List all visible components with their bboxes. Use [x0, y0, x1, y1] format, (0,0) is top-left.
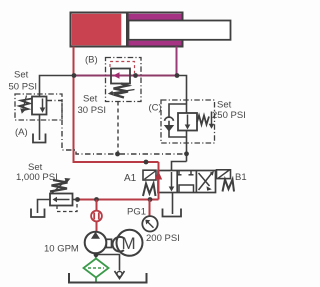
junction node red rail top [144, 160, 149, 165]
spring A1 side [143, 184, 156, 197]
cylinder rod-side fluid bottom (magenta) [129, 41, 182, 46]
junction node pump inlet [94, 252, 99, 257]
cylinder C1 barrel [71, 13, 183, 47]
wire: valve C outlet [186, 131, 188, 162]
wire: valve A inlet [40, 76, 74, 97]
wire: gauge drop (red) [149, 200, 151, 217]
tank T4 (main) [69, 273, 147, 283]
valve B drain (dashed) [117, 102, 119, 155]
junction node drain rail / C line [184, 151, 189, 156]
wire: drain branch [96, 255, 120, 271]
tank T3 (relief) [31, 209, 45, 218]
svg-text:Set: Set [217, 100, 232, 111]
wire: filter to tank (green) [95, 278, 97, 282]
relief valve R1 body [50, 194, 73, 206]
wire: head rail (magenta) [74, 75, 178, 77]
svg-text:250 PSI: 250 PSI [212, 110, 246, 121]
valve C adjustment arrow [211, 112, 213, 125]
electric motor M1 [117, 230, 143, 256]
quick disconnect QD1 [91, 211, 102, 222]
junction node relief [75, 197, 80, 202]
box2 blocked ports [178, 171, 180, 175]
svg-text:30 PSI: 30 PSI [78, 105, 107, 116]
svg-text:50 PSI: 50 PSI [9, 82, 38, 93]
box1 B-to-T arrow [171, 172, 173, 188]
pressure gauge PG1 [142, 216, 157, 231]
drain arrowhead into tank [115, 271, 125, 279]
svg-text:B1: B1 [235, 172, 247, 183]
svg-text:10 GPM: 10 GPM [44, 244, 79, 255]
cylinder rod-side fluid top (magenta) [129, 14, 182, 20]
valve C flow arrow [187, 115, 189, 126]
check valve CV1 [165, 117, 174, 121]
cylinder cap-side fluid (red) [72, 14, 122, 46]
wire: check bypass [169, 104, 187, 117]
svg-text:Set: Set [83, 94, 98, 105]
tank T1 (valve A) [33, 134, 46, 143]
piston rod [129, 21, 231, 40]
junction node at valve B outlet [133, 73, 138, 78]
directional valve D1 body [158, 171, 216, 193]
wire: rod-side line (magenta) [176, 47, 178, 76]
relief valve A body [32, 97, 47, 115]
svg-text:(A): (A) [15, 127, 28, 138]
valve B spring [114, 84, 129, 98]
shaft coupling [106, 239, 111, 247]
svg-text:200 PSI: 200 PSI [146, 233, 180, 244]
wire: R1 to tank [38, 200, 51, 214]
wire: valve A outlet to tank [39, 115, 41, 141]
svg-text:(B): (B) [85, 55, 98, 66]
valve A drain pilot (dashed) [47, 101, 187, 155]
wire: relief to rail (black) [73, 199, 81, 201]
valve A spring [20, 99, 33, 111]
pump flow triangle [91, 232, 100, 239]
pump P1 [85, 232, 107, 254]
junction node gauge tap [148, 197, 153, 202]
counterbalance valve C body [178, 113, 197, 131]
valve B pilot (dashed red) [110, 62, 135, 74]
wire: riser (red) [96, 200, 98, 212]
filter F1 [84, 259, 109, 278]
valve C enclosure (dashed) [161, 100, 215, 143]
wire: T port drain [172, 193, 174, 215]
R1 spring [50, 180, 68, 192]
spring B1 side [223, 180, 235, 192]
valve B flow arrow (magenta) [113, 72, 120, 79]
junction node rod line / rail [175, 73, 180, 78]
svg-text:1,000 PSI: 1,000 PSI [16, 172, 58, 183]
svg-text:A1: A1 [124, 173, 137, 184]
R1 adjustment arrow [52, 181, 66, 194]
junction node cap line / rail [72, 73, 77, 78]
wire: pump inlet (green) [95, 253, 97, 258]
red flow arrowhead [155, 171, 162, 179]
valve C spring [197, 116, 209, 125]
tank T2 (valve drain) [163, 209, 182, 217]
wire: pressure line P to A (red) [158, 162, 160, 200]
svg-text:PG1: PG1 [127, 207, 146, 218]
relief valve B body [111, 69, 130, 84]
R1 flow arrow [56, 199, 70, 201]
solenoid A1 [143, 170, 156, 180]
valve B enclosure (dashed) [106, 58, 142, 102]
valve A adjustment arrow [23, 96, 27, 110]
wire: pump pressure rail (red) [79, 199, 159, 201]
svg-text:Set: Set [14, 70, 29, 81]
R1 pilot (dashed) [57, 201, 77, 212]
cylinder piston [126, 14, 129, 46]
valve A flow arrow [42, 99, 44, 109]
solenoid B1 [217, 170, 231, 179]
wire: C branch top [177, 76, 187, 114]
wire: cap-side line (red) [74, 47, 159, 163]
box3 crossed arrows [199, 174, 212, 191]
junction node drain rail / B drain [115, 152, 120, 157]
svg-text:(C): (C) [149, 103, 162, 114]
junction node pump riser [94, 197, 99, 202]
valve A enclosure (dashed) [15, 94, 62, 120]
